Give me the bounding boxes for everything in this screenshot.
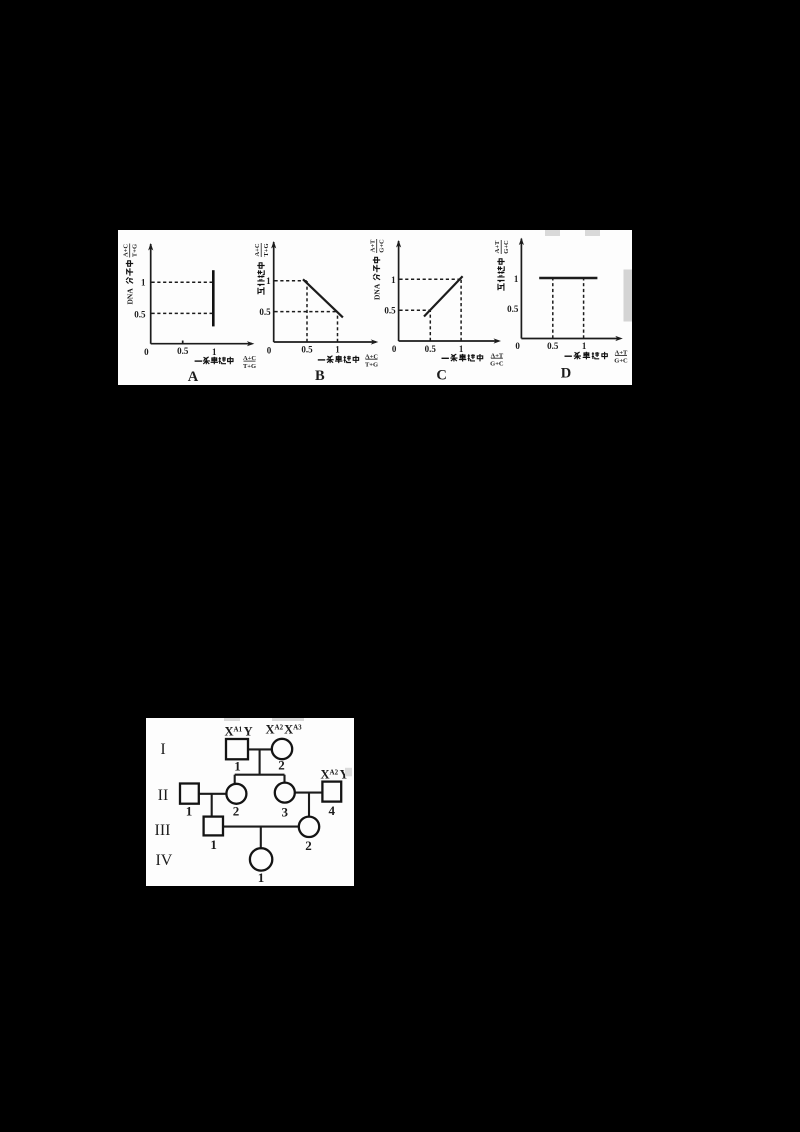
svg-text:A+T: A+T	[494, 240, 501, 253]
svg-text:0.5: 0.5	[547, 341, 559, 351]
svg-text:1: 1	[459, 344, 464, 354]
svg-text:0.5: 0.5	[177, 346, 189, 356]
svg-text:1: 1	[514, 274, 519, 284]
svg-text:T+G: T+G	[365, 361, 378, 368]
svg-text:T+G: T+G	[243, 363, 256, 370]
svg-text:XA2XA3: XA2XA3	[266, 723, 303, 737]
svg-text:II: II	[158, 787, 169, 804]
svg-text:T+G: T+G	[263, 243, 270, 256]
svg-text:A+C: A+C	[254, 243, 261, 256]
svg-text:1: 1	[266, 276, 271, 286]
svg-text:0: 0	[515, 341, 520, 351]
svg-text:0.5: 0.5	[507, 304, 519, 314]
svg-text:A+C: A+C	[123, 244, 130, 257]
svg-text:2: 2	[305, 838, 312, 853]
svg-text:1: 1	[582, 341, 587, 351]
svg-text:1: 1	[212, 347, 217, 357]
svg-text:1: 1	[210, 837, 217, 852]
svg-text:D: D	[561, 366, 571, 382]
svg-text:0.5: 0.5	[384, 306, 396, 316]
svg-text:0.5: 0.5	[134, 310, 146, 320]
svg-text:T+G: T+G	[131, 244, 138, 257]
svg-text:1: 1	[141, 278, 146, 288]
svg-text:0: 0	[392, 344, 397, 354]
svg-text:A: A	[188, 369, 199, 385]
svg-text:DNA: DNA	[373, 283, 382, 300]
svg-text:2: 2	[278, 758, 285, 773]
svg-text:B: B	[315, 368, 325, 384]
svg-text:I: I	[160, 741, 165, 758]
svg-text:G+C: G+C	[614, 358, 628, 365]
svg-text:DNA: DNA	[126, 288, 135, 305]
svg-text:G+C: G+C	[490, 360, 504, 367]
svg-text:2: 2	[233, 803, 240, 818]
svg-text:1: 1	[391, 275, 396, 285]
svg-text:1: 1	[234, 759, 241, 774]
svg-text:1: 1	[186, 804, 193, 819]
svg-text:0.5: 0.5	[259, 307, 271, 317]
svg-text:III: III	[155, 822, 171, 839]
svg-text:1: 1	[258, 870, 265, 885]
svg-text:C: C	[436, 368, 446, 384]
svg-text:4: 4	[329, 803, 336, 818]
svg-text:0.5: 0.5	[425, 344, 437, 354]
svg-text:G+C: G+C	[503, 240, 510, 254]
svg-text:G+C: G+C	[378, 239, 385, 253]
svg-text:A+T: A+T	[370, 239, 377, 252]
svg-text:1: 1	[335, 345, 340, 355]
svg-text:XA1Y: XA1Y	[225, 725, 253, 739]
svg-text:IV: IV	[155, 852, 172, 869]
svg-text:0: 0	[267, 346, 272, 356]
svg-text:0.5: 0.5	[301, 345, 313, 355]
svg-text:XA2Y: XA2Y	[321, 768, 349, 782]
svg-text:3: 3	[282, 804, 289, 819]
svg-text:0: 0	[144, 347, 149, 357]
